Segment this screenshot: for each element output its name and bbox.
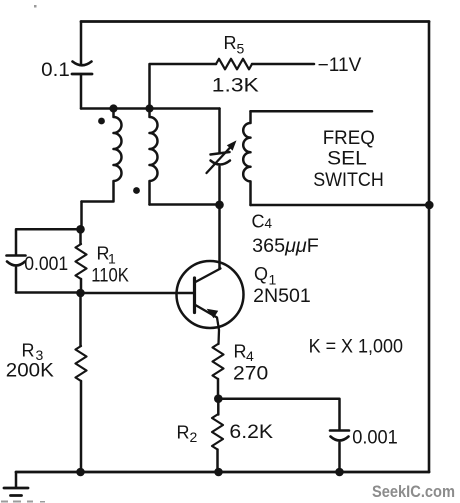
wire emitter node to right cap [218, 399, 339, 430]
wire right rail [428, 22, 431, 473]
variable capacitor C4 [207, 109, 237, 205]
wire base [81, 292, 195, 295]
wire left column to R1 node [80, 202, 83, 230]
inductor T1 primary winding [82, 109, 122, 202]
svg-text:4: 4 [246, 348, 254, 364]
svg-text:0.001: 0.001 [24, 254, 68, 275]
svg-text:R: R [224, 33, 237, 53]
wire 0.001 loop top [16, 229, 81, 254]
node junction dot secondary top [145, 104, 153, 112]
svg-text:2N501: 2N501 [253, 286, 311, 307]
svg-text:0.1: 0.1 [41, 60, 70, 81]
node junction dot primary top [109, 104, 117, 112]
node R1 top junction dot [76, 225, 85, 234]
svg-text:1: 1 [108, 251, 116, 267]
svg-text:2: 2 [190, 429, 198, 445]
node emitter junction dot [214, 394, 223, 403]
svg-text:110K: 110K [91, 266, 129, 287]
wire transformer top [81, 107, 220, 110]
svg-text:6.2K: 6.2K [229, 422, 273, 443]
svg-text:270: 270 [233, 364, 268, 385]
inductor T1 secondary winding [150, 109, 158, 205]
wire R5 to -11V [252, 63, 314, 66]
node base junction dot [76, 289, 85, 298]
svg-text:R: R [177, 423, 190, 443]
node cap bottom junction dot [335, 468, 344, 477]
phase dot secondary [133, 187, 140, 194]
resistor R5 [216, 59, 252, 70]
svg-text:1.3K: 1.3K [212, 76, 259, 97]
node R2 bottom junction dot [214, 468, 223, 477]
node bottom junction dot R3 [76, 468, 85, 477]
svg-text:FREQ: FREQ [323, 128, 375, 149]
wire bottom rail [16, 471, 429, 474]
scan marks bottom edge [1, 501, 45, 503]
svg-text:SeekIC.com: SeekIC.com [372, 482, 455, 501]
node junction dot right rail [425, 201, 434, 210]
capacitor 0.001 right [330, 431, 349, 473]
resistor R2 [212, 399, 223, 472]
svg-text:SWITCH: SWITCH [313, 170, 384, 191]
wire R5 branch [150, 64, 217, 109]
wire R3 to bottom rail [80, 381, 83, 472]
resistor R3 [76, 346, 87, 381]
inductor freq-sel winding [243, 111, 250, 205]
svg-text:365μμF: 365μμF [252, 236, 319, 257]
svg-text:R: R [234, 342, 247, 362]
svg-text:SEL: SEL [327, 149, 367, 170]
svg-text:5: 5 [237, 41, 245, 57]
svg-text:K = X 1,000: K = X 1,000 [309, 337, 403, 358]
svg-text:0.001: 0.001 [352, 428, 398, 449]
resistor R4 [213, 344, 224, 399]
wire freq-sel top [251, 110, 373, 113]
wire C4 node to collector [218, 205, 221, 269]
capacitor 0.001 left [7, 256, 26, 293]
resistor R1 [76, 229, 87, 293]
svg-text:Q: Q [254, 264, 268, 284]
wire freq-sel bottom [251, 204, 430, 207]
capacitor C 0.1 [72, 22, 92, 109]
scan speck top left [34, 5, 37, 8]
svg-text:−11V: −11V [318, 55, 362, 76]
svg-text:200K: 200K [6, 361, 54, 382]
wire secondary bottom [150, 203, 220, 206]
svg-text:R: R [22, 341, 35, 361]
phase dot primary [98, 118, 105, 125]
wire R1 node down to R3 [79, 293, 82, 346]
transistor Q1 [177, 261, 244, 344]
svg-text:C: C [252, 212, 265, 232]
svg-text:4: 4 [265, 216, 273, 231]
wire top rail [81, 20, 429, 23]
node collector junction dot [215, 201, 224, 210]
wire 0.001 loop bottom [16, 291, 81, 294]
ground [4, 472, 28, 496]
